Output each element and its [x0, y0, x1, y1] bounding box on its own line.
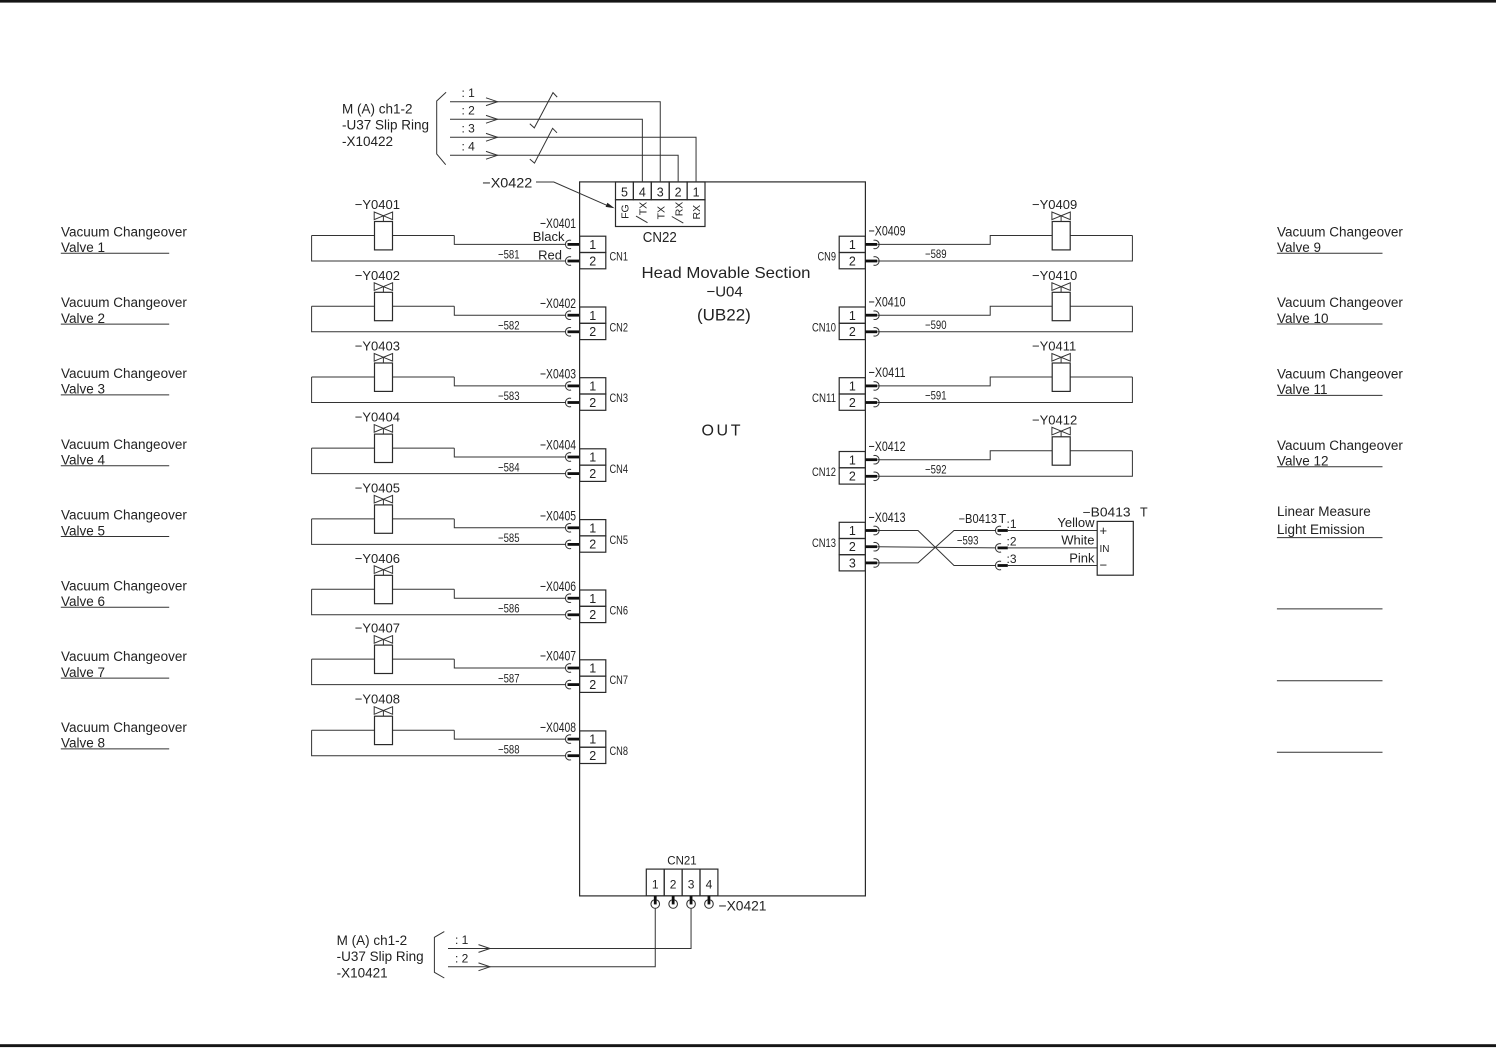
connector CN10: [839, 307, 865, 340]
svg-text:1: 1: [589, 451, 596, 465]
svg-text:2: 2: [589, 749, 596, 763]
svg-text:M (A) ch1-2: M (A) ch1-2: [342, 101, 413, 116]
svg-text:RX: RX: [673, 202, 685, 217]
svg-text:2: 2: [589, 678, 596, 692]
solenoid valve Y0411: [1052, 354, 1070, 392]
svg-text:1: 1: [693, 185, 700, 199]
wire 585 top run to CN5 pin1: [454, 519, 566, 528]
svg-text:IN: IN: [1100, 544, 1110, 555]
sensor B0413 box: [1097, 521, 1133, 575]
svg-text:−X0411: −X0411: [869, 364, 906, 380]
svg-text:−581: −581: [498, 248, 520, 262]
svg-text:−Y0405: −Y0405: [355, 480, 400, 495]
svg-text:−Y0404: −Y0404: [355, 410, 400, 425]
connector CN1: [580, 236, 606, 269]
wire 588 top run to CN8 pin1: [454, 730, 566, 739]
svg-text:2: 2: [849, 396, 856, 410]
plug B0413 :1: [996, 526, 1008, 535]
wire 583 return run CN3 pin2: [312, 377, 566, 403]
wire B0413 lead 1: [1008, 530, 1097, 532]
svg-text:−: −: [1100, 558, 1108, 573]
label M (A) ch1-2 slip ring -X10422: [342, 101, 429, 149]
plug B0413 :3: [996, 561, 1008, 570]
right label Vacuum Changeover Valve 10: [1277, 295, 1403, 326]
svg-text:CN10: CN10: [812, 320, 836, 334]
solenoid valve Y0405: [312, 495, 455, 533]
svg-text:Vacuum Changeover: Vacuum Changeover: [1277, 224, 1403, 239]
svg-text:1: 1: [849, 524, 856, 538]
svg-text:2: 2: [675, 185, 682, 199]
connector -X0411 pin sockets: [865, 382, 879, 407]
solenoid valve Y0409: [1052, 212, 1070, 250]
svg-text:2: 2: [670, 877, 677, 891]
svg-text:Pink: Pink: [1069, 550, 1095, 565]
connector -X0409 pin sockets: [865, 240, 879, 265]
connector CN22: [616, 182, 706, 227]
svg-text:: 2: : 2: [462, 104, 476, 118]
wire 586 return run CN6 pin2: [312, 589, 566, 615]
svg-text:−585: −585: [498, 531, 520, 545]
svg-text:−Y0403: −Y0403: [355, 339, 400, 354]
svg-text::2: :2: [1007, 535, 1017, 549]
svg-text:2: 2: [849, 325, 856, 339]
svg-text:Vacuum Changeover: Vacuum Changeover: [61, 649, 187, 664]
connector -X0406 pin sockets: [566, 594, 580, 619]
svg-text:Vacuum Changeover: Vacuum Changeover: [61, 366, 187, 381]
twisted pair mark wires 3-4: [530, 128, 557, 163]
enclosure U04 Head Movable Section box: [580, 182, 866, 896]
wire 583 top run to CN3 pin1: [454, 377, 566, 386]
svg-text:-X10422: -X10422: [342, 134, 393, 149]
page bottom border: [0, 1044, 1496, 1047]
svg-text:Vacuum Changeover: Vacuum Changeover: [1277, 367, 1403, 382]
solenoid valve Y0410: [1052, 283, 1070, 321]
svg-text:−Y0409: −Y0409: [1032, 197, 1077, 212]
svg-text:: 3: : 3: [462, 122, 476, 136]
wire 582 top run to CN2 pin1: [454, 306, 566, 315]
wire 584 top run to CN4 pin1: [454, 448, 566, 457]
wire 592 return run CN12 pin2: [878, 451, 1133, 477]
svg-text:CN11: CN11: [812, 391, 836, 405]
solenoid valve Y0408: [312, 707, 455, 745]
svg-text:−Y0406: −Y0406: [355, 551, 400, 566]
svg-text:3: 3: [688, 877, 695, 891]
svg-text:1: 1: [589, 592, 596, 606]
wire 593 CN13 pin2 to :2: [878, 547, 996, 548]
svg-text:−Y0407: −Y0407: [355, 621, 400, 636]
svg-text:CN2: CN2: [610, 320, 629, 334]
svg-text:Head Movable Section: Head Movable Section: [642, 265, 811, 282]
svg-text:CN21: CN21: [667, 855, 696, 867]
wire 582 return run CN2 pin2: [312, 306, 566, 332]
svg-text:−X0410: −X0410: [869, 294, 906, 310]
svg-text:1: 1: [589, 662, 596, 676]
svg-text:−Y0411: −Y0411: [1032, 339, 1076, 354]
svg-text:1: 1: [589, 309, 596, 323]
svg-text:−B0413: −B0413: [1083, 505, 1131, 519]
right empty row underline 6: [1277, 608, 1383, 610]
connector -X0407 pin sockets: [566, 664, 580, 689]
svg-text:−Y0410: −Y0410: [1032, 268, 1077, 283]
svg-text:CN9: CN9: [818, 250, 837, 264]
svg-text:Vacuum Changeover: Vacuum Changeover: [61, 224, 187, 239]
connector -X0413 pin sockets: [865, 526, 879, 567]
connector CN13: [839, 522, 865, 571]
wire 585 return run CN5 pin2: [312, 519, 566, 545]
wire 591 valve to riser: [1070, 376, 1132, 378]
svg-text:−X0407: −X0407: [540, 648, 576, 664]
right label Vacuum Changeover Valve 9: [1277, 224, 1403, 255]
svg-text:−Y0408: −Y0408: [355, 692, 400, 707]
svg-text:White: White: [1061, 532, 1094, 547]
left label Vacuum Changeover Valve 6: [61, 578, 188, 609]
connector CN9: [839, 236, 865, 269]
svg-text:: 1: : 1: [462, 86, 476, 100]
svg-text:Linear Measure: Linear Measure: [1277, 504, 1371, 519]
wire 589 valve to riser: [1070, 235, 1132, 237]
svg-text:2: 2: [589, 538, 596, 552]
svg-text:Vacuum Changeover: Vacuum Changeover: [1277, 438, 1403, 453]
solenoid valve Y0403: [312, 354, 455, 392]
svg-text:−591: −591: [925, 389, 947, 403]
svg-text:-X10421: -X10421: [337, 966, 388, 981]
wire 592 top run from CN12 pin1: [878, 451, 1053, 460]
connector CN6: [580, 590, 606, 623]
svg-text:−X0421: −X0421: [719, 898, 767, 914]
svg-text:−U04: −U04: [706, 284, 742, 301]
right label Vacuum Changeover Valve 11: [1277, 367, 1403, 398]
connector CN5: [580, 520, 606, 553]
svg-text:−X0402: −X0402: [540, 295, 576, 311]
svg-text:−592: −592: [925, 462, 947, 476]
svg-text:Light Emission: Light Emission: [1277, 522, 1365, 537]
solenoid valve Y0402: [312, 283, 455, 321]
left label Vacuum Changeover Valve 3: [61, 366, 188, 397]
wire X10422 :3: [450, 133, 696, 182]
connector CN21: [646, 869, 718, 896]
svg-text:2: 2: [589, 467, 596, 481]
svg-text:: 2: : 2: [455, 952, 469, 966]
connector CN11: [839, 378, 865, 411]
svg-text:TX: TX: [637, 202, 649, 215]
left label Vacuum Changeover Valve 8: [61, 720, 188, 751]
right empty row underline 7: [1277, 680, 1383, 682]
wire 589 return run CN9 pin2: [878, 236, 1133, 262]
twisted pair mark wires 1-2: [530, 93, 557, 128]
svg-text:: 4: : 4: [462, 140, 476, 154]
svg-text:−593: −593: [957, 533, 979, 547]
svg-text:1: 1: [589, 521, 596, 535]
wire 592 valve to riser: [1070, 450, 1132, 452]
svg-text:2: 2: [589, 396, 596, 410]
svg-text:-U37 Slip Ring: -U37 Slip Ring: [342, 118, 429, 133]
svg-text:CN22: CN22: [643, 229, 677, 246]
wire B0413 lead 3: [1008, 565, 1097, 567]
svg-text:−X0406: −X0406: [540, 578, 576, 594]
connector -X0421 pin sockets: [651, 896, 713, 908]
svg-text:-U37 Slip Ring: -U37 Slip Ring: [337, 949, 424, 964]
svg-text:4: 4: [706, 877, 713, 891]
svg-text:1: 1: [589, 380, 596, 394]
svg-text:2: 2: [849, 470, 856, 484]
wire X10422 :4: [450, 151, 678, 182]
svg-text:Vacuum Changeover: Vacuum Changeover: [61, 437, 187, 452]
bracket X10422: [437, 92, 446, 164]
bracket X10421: [434, 932, 444, 978]
wire 591 top run from CN11 pin1: [878, 377, 1053, 386]
leader arrow to X0422: [536, 182, 615, 208]
svg-text:−X0408: −X0408: [540, 719, 576, 735]
connector CN2: [580, 307, 606, 340]
svg-text:CN4: CN4: [610, 462, 629, 476]
svg-text:1: 1: [849, 309, 856, 323]
connector -X0402 pin sockets: [566, 311, 580, 336]
wire 593 CN13 pin1 crossover to :3: [878, 531, 996, 566]
svg-text:RX: RX: [691, 205, 703, 220]
wire 581 top run to CN1 pin1: [454, 236, 566, 245]
svg-text:1: 1: [849, 238, 856, 252]
svg-text:CN13: CN13: [812, 536, 836, 550]
CN22 /RX slash: [672, 217, 684, 224]
svg-text:M (A) ch1-2: M (A) ch1-2: [337, 933, 408, 948]
wire X10422 :2: [450, 115, 642, 182]
svg-text:−582: −582: [498, 319, 520, 333]
svg-text:CN3: CN3: [610, 391, 629, 405]
svg-text:: 1: : 1: [455, 933, 469, 947]
wire 587 top run to CN7 pin1: [454, 659, 566, 668]
CN22 /TX slash: [636, 216, 648, 223]
svg-text:CN5: CN5: [610, 533, 629, 547]
svg-text:Vacuum Changeover: Vacuum Changeover: [61, 295, 187, 310]
svg-text:−583: −583: [498, 389, 520, 403]
svg-text:FG: FG: [620, 204, 632, 219]
svg-text:2: 2: [589, 325, 596, 339]
svg-text:OUT: OUT: [702, 423, 744, 440]
svg-text:−Y0402: −Y0402: [355, 268, 400, 283]
svg-text:−X0413: −X0413: [869, 509, 906, 525]
svg-text:T: T: [1140, 505, 1148, 519]
right empty row underline 8: [1277, 751, 1383, 753]
left label Vacuum Changeover Valve 5: [61, 508, 188, 539]
solenoid valve Y0412: [1052, 427, 1070, 465]
wire X10422 :1: [450, 98, 660, 182]
svg-text:−X0403: −X0403: [540, 366, 576, 382]
svg-text:Vacuum Changeover: Vacuum Changeover: [1277, 295, 1403, 310]
solenoid valve Y0406: [312, 566, 455, 604]
connector -X0412 pin sockets: [865, 455, 879, 480]
connector CN3: [580, 378, 606, 411]
svg-text:−X0422: −X0422: [482, 175, 532, 191]
connector -X0403 pin sockets: [566, 382, 580, 407]
connector CN8: [580, 731, 606, 764]
wire 593 CN13 pin3 crossover to :1: [878, 531, 996, 563]
svg-text:5: 5: [621, 185, 628, 199]
svg-text:1: 1: [589, 238, 596, 252]
svg-text:−587: −587: [498, 671, 520, 685]
svg-text:−X0412: −X0412: [869, 438, 906, 454]
svg-text:2: 2: [849, 540, 856, 554]
solenoid valve Y0404: [312, 425, 455, 463]
svg-text:1: 1: [849, 380, 856, 394]
left label Vacuum Changeover Valve 2: [61, 295, 188, 326]
wire 589 top run from CN9 pin1: [878, 236, 1053, 245]
svg-text:3: 3: [657, 185, 664, 199]
svg-text:CN12: CN12: [812, 465, 836, 479]
svg-text:CN1: CN1: [610, 250, 629, 264]
svg-text:−X0404: −X0404: [540, 437, 576, 453]
svg-text:2: 2: [589, 608, 596, 622]
wire X10421 :2 to CN21 pin1: [448, 909, 655, 971]
wire 586 top run to CN6 pin1: [454, 589, 566, 598]
svg-text:T: T: [999, 512, 1007, 526]
wire 588 return run CN8 pin2: [312, 730, 566, 756]
plug B0413 :2: [996, 544, 1008, 553]
svg-text:−589: −589: [925, 247, 947, 261]
svg-text:1: 1: [849, 453, 856, 467]
svg-text:3: 3: [849, 556, 856, 570]
svg-text:2: 2: [589, 254, 596, 268]
svg-text:−590: −590: [925, 318, 947, 332]
left label Vacuum Changeover Valve 7: [61, 649, 188, 680]
svg-text:−B0413: −B0413: [959, 512, 998, 526]
page top border: [0, 0, 1496, 3]
svg-text:1: 1: [652, 877, 659, 891]
svg-text:Vacuum Changeover: Vacuum Changeover: [61, 578, 187, 593]
svg-text:−584: −584: [498, 460, 520, 474]
wire 587 return run CN7 pin2: [312, 659, 566, 685]
svg-text:TX: TX: [655, 206, 667, 219]
svg-text:−Y0401: −Y0401: [355, 197, 400, 212]
wire 590 top run from CN10 pin1: [878, 306, 1053, 315]
connector -X0410 pin sockets: [865, 311, 879, 336]
svg-text:+: +: [1100, 523, 1108, 538]
svg-text::1: :1: [1007, 517, 1017, 531]
connector CN12: [839, 452, 865, 485]
connector -X0405 pin sockets: [566, 524, 580, 549]
right label Linear Measure Light Emission: [1277, 504, 1383, 537]
svg-text:−Y0412: −Y0412: [1032, 412, 1077, 427]
right label Vacuum Changeover Valve 12: [1277, 438, 1403, 469]
svg-text:Red: Red: [538, 248, 562, 263]
solenoid valve Y0407: [312, 636, 455, 674]
connector -X0401 pin sockets: [566, 240, 580, 265]
solenoid valve Y0401: [312, 212, 455, 250]
wire X10421 :1 to CN21 pin3: [448, 909, 691, 953]
svg-text::3: :3: [1007, 552, 1017, 566]
svg-text:CN6: CN6: [610, 603, 629, 617]
wire 590 return run CN10 pin2: [878, 306, 1133, 332]
svg-text:−588: −588: [498, 742, 520, 756]
svg-text:−586: −586: [498, 602, 520, 616]
svg-text:1: 1: [589, 733, 596, 747]
svg-text:−X0405: −X0405: [540, 508, 576, 524]
svg-text:−X0409: −X0409: [869, 223, 906, 239]
svg-text:(UB22): (UB22): [697, 305, 751, 324]
wire 584 return run CN4 pin2: [312, 448, 566, 474]
left label Vacuum Changeover Valve 4: [61, 437, 188, 468]
connector CN4: [580, 449, 606, 482]
svg-text:Vacuum Changeover: Vacuum Changeover: [61, 508, 187, 523]
svg-text:CN7: CN7: [610, 673, 629, 687]
svg-text:4: 4: [639, 185, 646, 199]
wire 590 valve to riser: [1070, 305, 1132, 307]
left label Vacuum Changeover Valve 1: [61, 224, 188, 255]
wire B0413 lead 2: [1008, 547, 1097, 549]
wire 581 return run CN1 pin2: [312, 236, 566, 262]
connector CN7: [580, 660, 606, 693]
svg-text:CN8: CN8: [610, 744, 629, 758]
label M (A) ch1-2 slip ring -X10421: [337, 933, 424, 981]
svg-text:Vacuum Changeover: Vacuum Changeover: [61, 720, 187, 735]
svg-text:Black: Black: [533, 229, 565, 244]
svg-text:2: 2: [849, 254, 856, 268]
wire 591 return run CN11 pin2: [878, 377, 1133, 403]
connector -X0408 pin sockets: [566, 735, 580, 760]
connector -X0404 pin sockets: [566, 453, 580, 478]
